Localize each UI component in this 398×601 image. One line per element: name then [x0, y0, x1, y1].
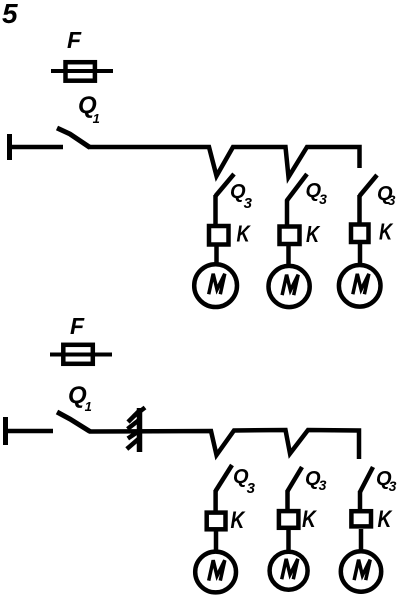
terminal bar (bottom) — [3, 417, 8, 445]
motor M branch 3 (bottom) — [341, 551, 381, 591]
svg-text:K: K — [306, 222, 321, 247]
wire left of switch Q1 (top) — [9, 145, 63, 150]
contactor K branch 3 (top) — [351, 225, 369, 243]
svg-text:K: K — [237, 222, 252, 247]
svg-text:K: K — [379, 220, 394, 245]
motor M branch 1 (top) — [194, 264, 237, 307]
svg-text:K: K — [231, 506, 246, 534]
terminal bar (top) — [7, 134, 12, 160]
bus wire with branch taps (bottom) — [89, 430, 359, 459]
label M branch 3 (bottom) — [354, 560, 370, 580]
switch Q3 blade branch 1 (bottom) — [216, 465, 232, 491]
wire contactor to motor branch 2 (bottom) — [286, 530, 291, 551]
switch Q3 blade branch 3 (bottom) — [360, 467, 373, 492]
svg-text:K: K — [302, 505, 317, 533]
svg-text:K: K — [378, 505, 393, 533]
wire contactor to motor branch 2 (top) — [286, 246, 291, 265]
wire through fuse F bottom — [50, 353, 112, 357]
motor M branch 2 (bottom) — [270, 552, 308, 590]
contactor K branch 3 (bottom) — [351, 511, 371, 526]
label M branch 3 (top) — [353, 274, 369, 294]
contactor K branch 1 (top) — [209, 226, 229, 245]
wire branch 3 to contactor (bottom) — [358, 491, 363, 510]
wire contactor to motor branch 3 (bottom) — [359, 529, 364, 551]
svg-text:F: F — [70, 313, 85, 339]
wire contactor to motor branch 1 (top) — [214, 246, 219, 264]
contactor K branch 2 (bottom) — [279, 511, 299, 528]
wire branch 2 to contactor (top) — [285, 200, 290, 226]
label M branch 2 (top) — [282, 275, 298, 295]
hatched disconnect mark — [127, 408, 145, 453]
wire contactor to motor branch 1 (bottom) — [214, 531, 219, 551]
switch Q1 blade (top) — [57, 128, 90, 148]
wire branch 2 to contactor (bottom) — [285, 491, 290, 510]
motor M branch 3 (top) — [339, 265, 381, 307]
switch Q3 blade branch 2 (top) — [287, 174, 308, 201]
svg-text:5: 5 — [2, 0, 18, 29]
label M branch 1 (bottom) — [209, 560, 225, 580]
motor M branch 2 (top) — [269, 266, 310, 307]
bus wire with branch taps (top) — [89, 147, 360, 177]
wire contactor to motor branch 3 (top) — [358, 244, 363, 264]
wire branch 1 to contactor (top) — [213, 195, 218, 225]
label M branch 2 (bottom) — [282, 559, 298, 579]
fuse F (top) — [66, 62, 95, 80]
switch Q3 blade branch 1 (top) — [216, 174, 235, 196]
wire through fuse F top — [51, 69, 113, 73]
fuse F (bottom) — [63, 345, 93, 364]
switch Q1 blade (bottom) — [57, 412, 90, 432]
contactor K branch 1 (bottom) — [207, 513, 226, 530]
motor M branch 1 (bottom) — [195, 552, 236, 593]
wire branch 3 to contactor (top) — [357, 195, 362, 224]
contactor K branch 2 (top) — [280, 227, 300, 245]
svg-text:F: F — [67, 27, 82, 53]
switch Q3 blade branch 3 (top) — [360, 175, 378, 196]
label M branch 1 (top) — [209, 274, 225, 294]
wire left of switch Q1 (bottom) — [5, 429, 53, 434]
switch Q3 blade branch 2 (bottom) — [287, 467, 302, 492]
wire branch 1 to contactor (bottom) — [213, 490, 218, 512]
